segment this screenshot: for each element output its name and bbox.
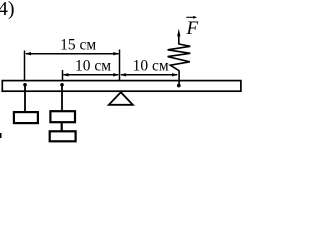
dimension tick at fulcrum bbox=[119, 50, 121, 81]
middle weight W3 bottom bbox=[50, 131, 76, 141]
dimension tick at left hanger bbox=[24, 51, 26, 81]
force arrow F bbox=[177, 29, 180, 45]
dimension line 10 cm (right) bbox=[120, 73, 179, 76]
middle weight W2 top bbox=[50, 111, 75, 122]
edge mark bottom-left bbox=[0, 133, 2, 138]
node C: spring attachment dot bbox=[177, 84, 181, 88]
spring (zigzag) bbox=[168, 44, 191, 71]
wire: middle hanger line bbox=[61, 85, 63, 111]
svg-text:4): 4) bbox=[0, 0, 14, 20]
svg-text:15 см: 15 см bbox=[60, 36, 96, 53]
node A: left hanger attachment dot bbox=[23, 83, 27, 87]
dimension line 10 cm (left) bbox=[62, 73, 119, 76]
fulcrum triangle bbox=[109, 92, 133, 105]
dimension line 15 cm bbox=[25, 52, 120, 55]
wire: connector between stacked weights bbox=[61, 122, 63, 132]
dimension tick at middle hanger bbox=[62, 70, 64, 81]
svg-text:F: F bbox=[186, 18, 199, 39]
svg-text:10 см: 10 см bbox=[133, 57, 169, 74]
left weight W1 bbox=[14, 112, 38, 123]
beam (lever) bbox=[2, 81, 241, 92]
wire: left hanger line bbox=[24, 85, 26, 112]
node B: middle hanger attachment dot bbox=[60, 83, 64, 87]
wire: spring lower stub bbox=[178, 71, 180, 86]
svg-text:10 см: 10 см bbox=[75, 58, 111, 75]
